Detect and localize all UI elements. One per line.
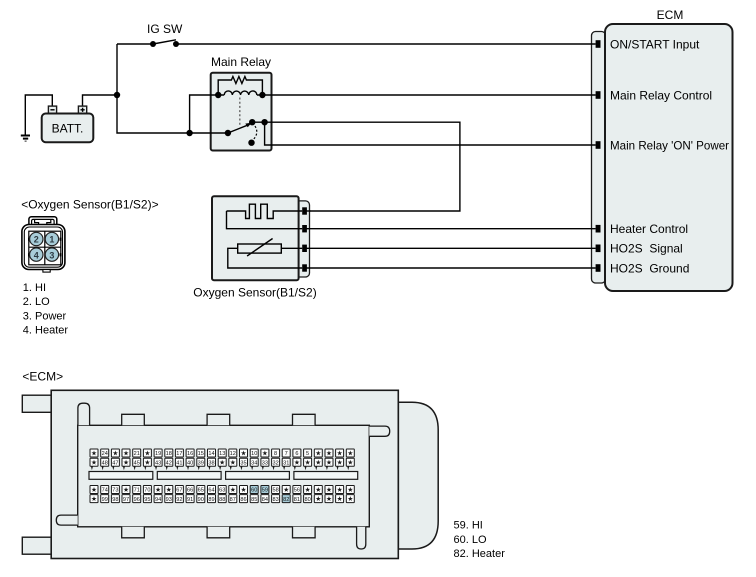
svg-text:74: 74 <box>102 488 108 494</box>
svg-text:96: 96 <box>134 497 140 503</box>
svg-text:16: 16 <box>187 451 193 457</box>
ECM connector housing <box>51 390 398 558</box>
oxygen sensor connector strip <box>295 201 310 277</box>
svg-text:Main Relay: Main Relay <box>211 55 271 69</box>
svg-text:88: 88 <box>219 497 225 503</box>
oxygen sensor pin 2 <box>302 225 307 232</box>
ECM connector pin row 2 <box>90 458 354 470</box>
battery BATT. <box>42 106 94 142</box>
svg-text:24: 24 <box>102 451 108 457</box>
connector cavity pin 2 <box>30 232 43 245</box>
svg-text:45: 45 <box>134 460 140 466</box>
ECM connector pin row 1 <box>90 449 354 457</box>
svg-text:83: 83 <box>272 497 278 503</box>
svg-text:82. Heater: 82. Heater <box>454 548 506 560</box>
wire: relay contact to ECM Main Relay ON Power <box>265 122 596 145</box>
svg-text:13: 13 <box>219 451 225 457</box>
wire: sensor pin 4 to ECM HO2S Ground <box>306 267 596 269</box>
ECM connector center separator bars <box>89 472 358 480</box>
wire: relay contact to oxygen sensor pin 1 (heater power) <box>252 122 460 211</box>
svg-text:42: 42 <box>166 460 172 466</box>
wire: IG SW to ECM ON/START Input <box>176 43 596 45</box>
ECM pin: HO2S&#160;&#160;Signal <box>596 245 601 253</box>
svg-text:67: 67 <box>176 488 182 494</box>
svg-text:4. Heater: 4. Heater <box>23 325 69 337</box>
ECM connector right bump <box>398 402 438 549</box>
svg-text:87: 87 <box>230 497 236 503</box>
svg-text:82: 82 <box>283 497 289 503</box>
node: battery positive junction <box>114 92 120 98</box>
ECM connector left mount tabs <box>22 395 51 412</box>
wire: vertical from IG SW line down to relay feed <box>117 44 228 133</box>
svg-text:BATT.: BATT. <box>52 122 84 136</box>
wire stub: sensor pin 1 <box>306 210 311 212</box>
svg-text:71: 71 <box>134 488 140 494</box>
svg-text:HO2S Ground: HO2S Ground <box>610 261 689 275</box>
svg-text:1: 1 <box>49 235 54 245</box>
ECM pin: HO2S&#160;&#160;Ground <box>596 264 601 272</box>
svg-text:IG SW: IG SW <box>147 22 183 36</box>
svg-text:5: 5 <box>306 451 309 457</box>
oxygen sensor pin 1 <box>302 207 307 214</box>
wire: sensor pin 3 to ECM HO2S Signal <box>306 247 596 249</box>
ground <box>21 136 30 142</box>
sensor element (comb) <box>227 204 303 218</box>
svg-text:21: 21 <box>134 451 140 457</box>
face bottom-right rib <box>357 527 366 549</box>
oxygen sensor box <box>212 196 299 280</box>
svg-text:40: 40 <box>187 460 193 466</box>
ECM pin: Heater Control <box>596 225 601 233</box>
ECM pin: ON/START Input <box>596 40 601 48</box>
wire: junction up to relay coil input <box>190 95 219 133</box>
svg-text:65: 65 <box>198 488 204 494</box>
svg-text:98: 98 <box>112 497 118 503</box>
svg-text:38: 38 <box>208 460 214 466</box>
oxygen sensor pin 3 <box>302 245 307 252</box>
svg-text:18: 18 <box>166 451 172 457</box>
ECM pin: <tspan textLength="119" lengthAdjust="spacingAndGlyphs">Main Relay &#39;ON&#39; Power</tspan> <box>596 141 601 149</box>
svg-text:97: 97 <box>123 497 129 503</box>
svg-text:8: 8 <box>274 451 277 457</box>
svg-text:91: 91 <box>187 497 193 503</box>
svg-text:47: 47 <box>112 460 118 466</box>
svg-text:66: 66 <box>187 488 193 494</box>
relay armature dotted link <box>239 98 241 127</box>
svg-text:33: 33 <box>262 460 268 466</box>
svg-text:17: 17 <box>176 451 182 457</box>
connector cavity pin 3 <box>45 248 58 261</box>
svg-text:Heater Control: Heater Control <box>610 222 688 236</box>
svg-text:64: 64 <box>208 488 214 494</box>
svg-text:73: 73 <box>112 488 118 494</box>
wire: relay coil to ECM Main Relay Control <box>262 94 595 96</box>
svg-text:7: 7 <box>285 451 288 457</box>
face top-left rib <box>78 403 90 425</box>
svg-text:63: 63 <box>219 488 225 494</box>
inductor coil (relay) <box>224 91 257 95</box>
svg-text:95: 95 <box>144 497 150 503</box>
svg-text:ECM: ECM <box>657 8 684 22</box>
svg-text:86: 86 <box>240 497 246 503</box>
svg-text:90: 90 <box>198 497 204 503</box>
svg-text:80: 80 <box>304 497 310 503</box>
face top-right rib <box>369 426 389 436</box>
node: relay coil feed junction <box>186 130 192 136</box>
svg-text:32: 32 <box>272 460 278 466</box>
svg-text:3. Power: 3. Power <box>23 311 67 323</box>
svg-text:HO2S Signal: HO2S Signal <box>610 242 683 256</box>
svg-text:31: 31 <box>283 460 289 466</box>
wire: node to IG SW <box>117 43 153 45</box>
wire: battery positive to junction <box>83 95 118 107</box>
svg-text:84: 84 <box>262 497 268 503</box>
svg-text:99: 99 <box>102 497 108 503</box>
svg-text:Main Relay 'ON' Power: Main Relay 'ON' Power <box>610 138 729 152</box>
heater resistor (sensor) <box>238 244 282 253</box>
face top bumps <box>122 414 145 425</box>
svg-text:93: 93 <box>166 497 172 503</box>
svg-text:81: 81 <box>294 497 300 503</box>
ECM connector strip <box>592 32 606 284</box>
resistor (relay) <box>218 77 262 96</box>
svg-text:39: 39 <box>198 460 204 466</box>
ECM connector pin row 3 <box>90 486 354 494</box>
svg-text:2: 2 <box>34 235 39 245</box>
svg-text:Main Relay Control: Main Relay Control <box>610 88 712 102</box>
svg-text:Oxygen Sensor(B1/S2): Oxygen Sensor(B1/S2) <box>193 286 316 300</box>
oxygen sensor pin 4 <box>302 264 307 271</box>
svg-text:60. LO: 60. LO <box>454 534 487 546</box>
svg-text:4: 4 <box>34 250 39 260</box>
svg-text:3: 3 <box>49 250 54 260</box>
oxygen sensor connector face view <box>22 217 65 272</box>
svg-text:15: 15 <box>198 451 204 457</box>
relay box: Main Relay <box>211 73 272 151</box>
svg-text:59. HI: 59. HI <box>454 520 483 532</box>
svg-text:<ECM>: <ECM> <box>22 369 63 383</box>
svg-text:59: 59 <box>262 488 268 494</box>
svg-text:1. HI: 1. HI <box>23 282 46 294</box>
svg-text:ON/START Input: ON/START Input <box>610 37 700 51</box>
svg-text:48: 48 <box>102 460 108 466</box>
svg-text:85: 85 <box>251 497 257 503</box>
svg-text:2. LO: 2. LO <box>23 296 50 308</box>
connector cavity pin 4 <box>30 248 43 261</box>
svg-text:6: 6 <box>295 451 298 457</box>
svg-text:92: 92 <box>176 497 182 503</box>
ECM connector pin row 4 <box>90 495 354 503</box>
face left rib <box>56 515 77 525</box>
svg-text:60: 60 <box>251 488 257 494</box>
svg-text:94: 94 <box>155 497 161 503</box>
svg-text:<Oxygen Sensor(B1/S2)>: <Oxygen Sensor(B1/S2)> <box>21 198 158 212</box>
svg-text:34: 34 <box>251 460 257 466</box>
svg-text:56: 56 <box>294 488 300 494</box>
svg-text:89: 89 <box>208 497 214 503</box>
svg-text:35: 35 <box>240 460 246 466</box>
svg-text:43: 43 <box>155 460 161 466</box>
svg-text:10: 10 <box>251 451 257 457</box>
svg-text:41: 41 <box>176 460 182 466</box>
svg-text:19: 19 <box>155 451 161 457</box>
svg-text:14: 14 <box>208 451 214 457</box>
wire: battery negative to ground <box>25 95 52 135</box>
svg-text:12: 12 <box>230 451 236 457</box>
face bottom bumps <box>122 527 145 538</box>
ECM box U1 <box>605 24 733 291</box>
connector cavity pin 1 <box>45 232 58 245</box>
wire: sensor pin 2 to ECM Heater Control <box>306 228 596 230</box>
ECM connector face <box>78 425 370 527</box>
svg-text:58: 58 <box>272 488 278 494</box>
ECM pin: Main Relay Control <box>596 91 601 99</box>
relay switch contact <box>225 130 231 136</box>
svg-text:70: 70 <box>144 488 150 494</box>
